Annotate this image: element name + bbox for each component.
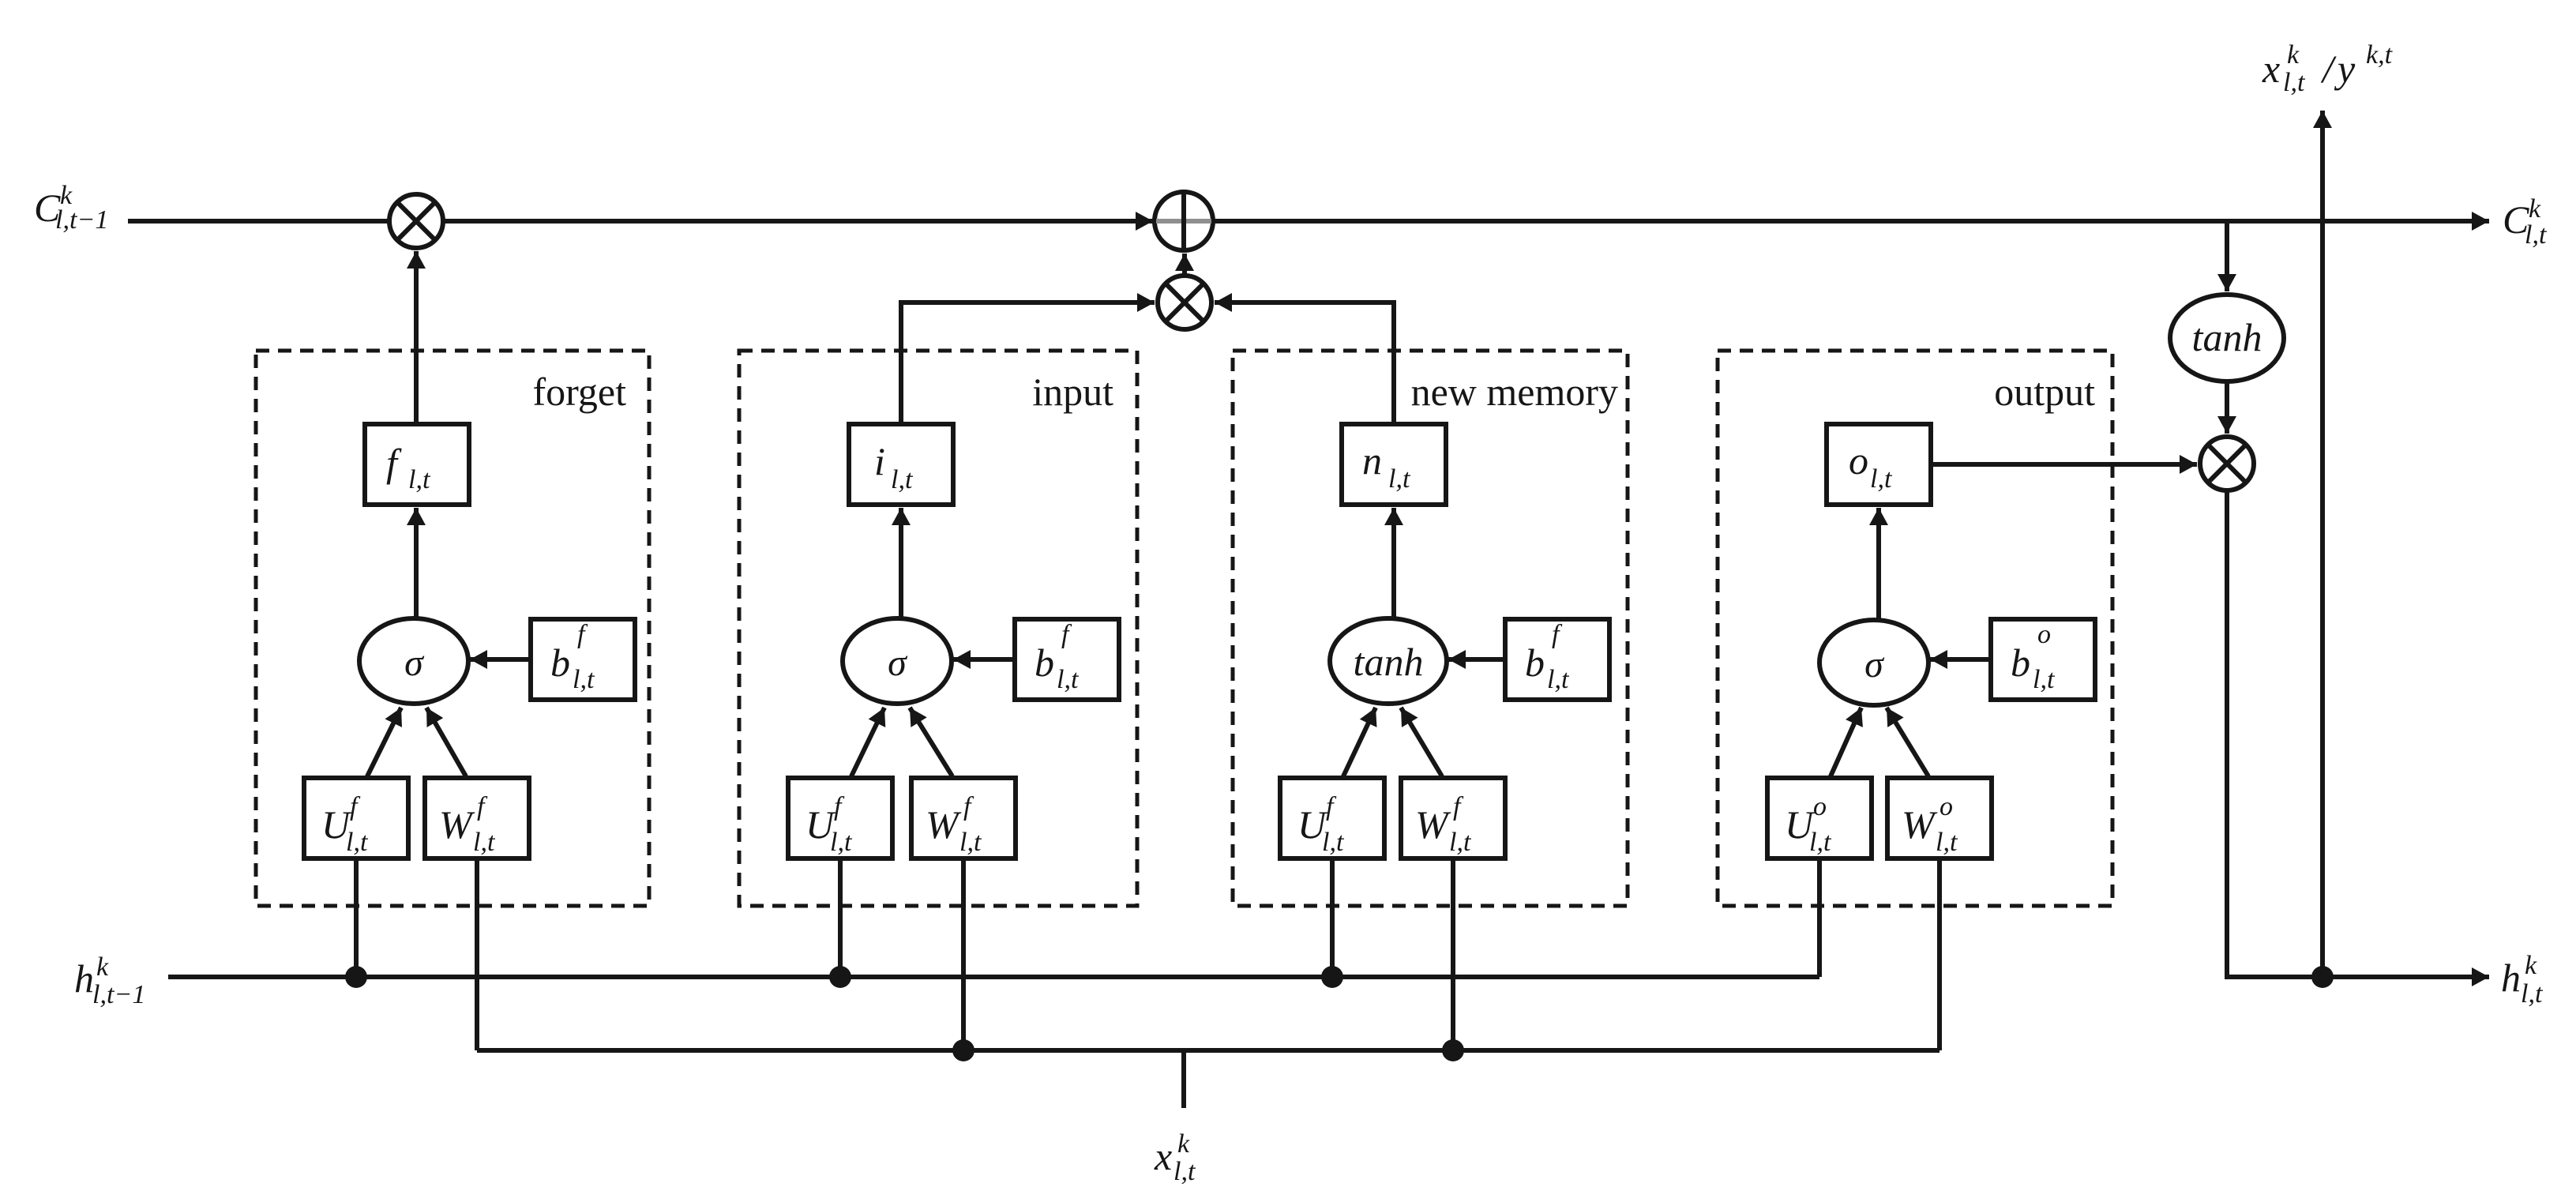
weight box W^f_l,t new memory xyxy=(1401,778,1505,858)
svg-text:x: x xyxy=(1154,1134,1172,1178)
svg-text:input: input xyxy=(1032,370,1113,414)
svg-text:l,t−1: l,t−1 xyxy=(92,980,145,1009)
svg-text:k: k xyxy=(96,952,109,982)
weight box W^f_l,t forget xyxy=(425,778,529,858)
adder node PLUS xyxy=(1155,192,1213,250)
wire activation to n box xyxy=(1391,508,1396,618)
svg-text:k: k xyxy=(1177,1129,1190,1159)
tanh ellipse right xyxy=(2170,295,2284,381)
weight box U^f_l,t forget xyxy=(304,778,408,858)
wire activation to o box xyxy=(1876,508,1881,618)
wire W to activation forget xyxy=(426,708,466,776)
svg-text:l,t: l,t xyxy=(891,465,914,494)
svg-text:k: k xyxy=(2525,951,2537,980)
wire W stub down output xyxy=(1937,858,1942,1050)
svg-text:W: W xyxy=(1902,802,1938,847)
weight box U^f_l,t new memory xyxy=(1280,778,1384,858)
junction W-new memory on x line xyxy=(1442,1039,1464,1061)
activation ellipse output xyxy=(1819,620,1928,705)
multiply node X2 (i x n) xyxy=(1158,276,1211,329)
svg-text:l,t: l,t xyxy=(1322,828,1345,857)
svg-text:l,t: l,t xyxy=(2283,68,2306,97)
wire X2 up into adder xyxy=(1182,254,1187,276)
wire W to activation input xyxy=(910,708,952,776)
svg-text:W: W xyxy=(926,802,962,847)
svg-text:l,t: l,t xyxy=(2521,979,2544,1009)
svg-text:W: W xyxy=(439,802,475,847)
wire W stub down input xyxy=(961,858,966,1050)
wire C line right segment xyxy=(1213,219,2489,223)
svg-text:σ: σ xyxy=(888,642,908,684)
wire activation to f box xyxy=(414,508,419,618)
activation ellipse input xyxy=(843,618,952,704)
wire from f gate up into X1 xyxy=(414,251,419,424)
svg-text:l,t: l,t xyxy=(1449,828,1472,857)
wire U stub down output xyxy=(1817,858,1822,977)
svg-text:l,t: l,t xyxy=(830,828,853,857)
svg-text:h: h xyxy=(74,956,94,1001)
svg-text:b: b xyxy=(1035,640,1054,685)
wire W stub down forget xyxy=(475,858,479,1050)
svg-text:o: o xyxy=(2037,620,2051,649)
svg-text:tanh: tanh xyxy=(2192,315,2262,359)
weight box W^o_l,t output xyxy=(1887,778,1992,858)
svg-text:l,t−1: l,t−1 xyxy=(55,205,108,235)
wire W stub down new memory xyxy=(1451,858,1455,1050)
wire W to activation output xyxy=(1887,708,1928,776)
svg-text:n: n xyxy=(1362,438,1382,483)
dashed box forget gate xyxy=(256,351,649,906)
wire U to activation new memory xyxy=(1343,708,1376,776)
activation ellipse forget xyxy=(359,618,468,704)
dashed box new memory gate xyxy=(1233,351,1628,906)
svg-text:l,t: l,t xyxy=(959,828,982,857)
svg-text:l,t: l,t xyxy=(1057,665,1080,694)
svg-text:i: i xyxy=(874,439,885,483)
svg-text:o: o xyxy=(1940,792,1953,821)
gate result box n_l,t xyxy=(1342,424,1446,505)
wire h output: X3 down and right xyxy=(2227,490,2489,977)
svg-text:y: y xyxy=(2334,47,2356,91)
svg-text:l,t: l,t xyxy=(1870,464,1893,494)
svg-text:l,t: l,t xyxy=(408,465,431,494)
junction W-input on x line xyxy=(952,1039,974,1061)
junction h output split xyxy=(2311,966,2334,988)
svg-text:l,t: l,t xyxy=(473,828,496,857)
wire U to activation input xyxy=(851,708,884,776)
node x_l,t input label xyxy=(1154,1129,1196,1186)
weight box U^f_l,t input xyxy=(788,778,892,858)
wire U to activation output xyxy=(1831,708,1861,776)
svg-text:l,t: l,t xyxy=(1547,665,1570,694)
wire branch from C line down to tanh xyxy=(2225,223,2229,291)
wire x_l,t stem xyxy=(1181,1050,1186,1108)
svg-text:x: x xyxy=(2262,47,2280,91)
svg-text:l,t: l,t xyxy=(1809,828,1832,857)
gate result box i_l,t xyxy=(849,424,953,505)
multiply node X3 (o x tanh(C)) xyxy=(2200,437,2254,490)
svg-text:k: k xyxy=(2287,40,2300,69)
wire bias to activation new memory xyxy=(1448,657,1505,662)
activation ellipse new memory xyxy=(1330,618,1447,704)
node h_l,t output label xyxy=(2501,951,2544,1009)
wire U stub down input xyxy=(838,858,843,977)
svg-text:W: W xyxy=(1415,802,1451,847)
wire U stub down forget xyxy=(354,858,359,977)
wire bias to activation input xyxy=(953,657,1015,662)
svg-text:h: h xyxy=(2501,956,2521,1000)
junction U-forget on h line xyxy=(345,966,367,988)
svg-text:b: b xyxy=(550,640,570,685)
node C_l,t-1 input label xyxy=(34,181,108,235)
wire x/y output up xyxy=(2320,111,2325,977)
wire from n gate up and left into X2 xyxy=(1215,302,1394,424)
bias box b^o_l,t output xyxy=(1991,619,2095,700)
gate result box f_l,t xyxy=(365,424,469,505)
multiply node X1 (C x f) xyxy=(389,194,443,248)
node C_l,t output label xyxy=(2503,194,2548,250)
svg-text:k,t: k,t xyxy=(2366,40,2394,69)
node x_l,t / y_k,t output label xyxy=(2262,40,2394,97)
wire U stub down new memory xyxy=(1330,858,1335,977)
weight box W^f_l,t input xyxy=(911,778,1016,858)
svg-text:σ: σ xyxy=(1864,644,1885,686)
wire bias to activation output xyxy=(1930,657,1991,662)
svg-text:l,t: l,t xyxy=(1388,464,1411,494)
svg-text:l,t: l,t xyxy=(2525,220,2548,250)
weight box U^o_l,t output xyxy=(1767,778,1872,858)
wire U to activation forget xyxy=(367,708,401,776)
wire bias to activation forget xyxy=(470,657,531,662)
svg-text:forget: forget xyxy=(533,370,627,414)
svg-text:output: output xyxy=(1994,370,2095,414)
svg-text:b: b xyxy=(1525,640,1545,685)
gate result box o_l,t xyxy=(1827,424,1931,505)
node h_l,t-1 input label xyxy=(74,952,145,1009)
junction U-input on h line xyxy=(829,966,851,988)
svg-text:l,t: l,t xyxy=(346,828,369,857)
svg-text:o: o xyxy=(1813,792,1827,821)
svg-text:k: k xyxy=(2529,194,2541,223)
wire h_l,t-1 line xyxy=(168,975,1819,979)
svg-text:l,t: l,t xyxy=(573,665,595,694)
wire x_l,t line xyxy=(477,1048,1940,1053)
junction U-new memory on h line xyxy=(1321,966,1343,988)
svg-text:l,t: l,t xyxy=(1173,1157,1196,1186)
svg-text:tanh: tanh xyxy=(1354,640,1424,684)
svg-text:σ: σ xyxy=(404,642,425,684)
wire W to activation new memory xyxy=(1401,708,1442,776)
wire o gate into X3 xyxy=(1931,462,2197,467)
wire tanh down into X3 xyxy=(2225,381,2229,434)
dashed box input gate xyxy=(739,351,1137,906)
wire C line middle segment into adder xyxy=(443,219,1153,223)
svg-text:o: o xyxy=(1849,438,1868,483)
svg-text:b: b xyxy=(2011,640,2030,685)
bias box b^f_l,t new memory xyxy=(1505,619,1609,700)
bias box b^f_l,t forget xyxy=(531,619,635,700)
bias box b^f_l,t input xyxy=(1015,619,1119,700)
svg-text:new memory: new memory xyxy=(1411,370,1618,414)
dashed box output gate xyxy=(1718,351,2112,906)
wire from i gate up and right into X2 xyxy=(901,302,1155,424)
wire C line left segment xyxy=(128,219,389,223)
svg-text:l,t: l,t xyxy=(1936,828,1958,857)
svg-text:l,t: l,t xyxy=(2033,665,2056,694)
wire activation to i box xyxy=(899,508,903,618)
